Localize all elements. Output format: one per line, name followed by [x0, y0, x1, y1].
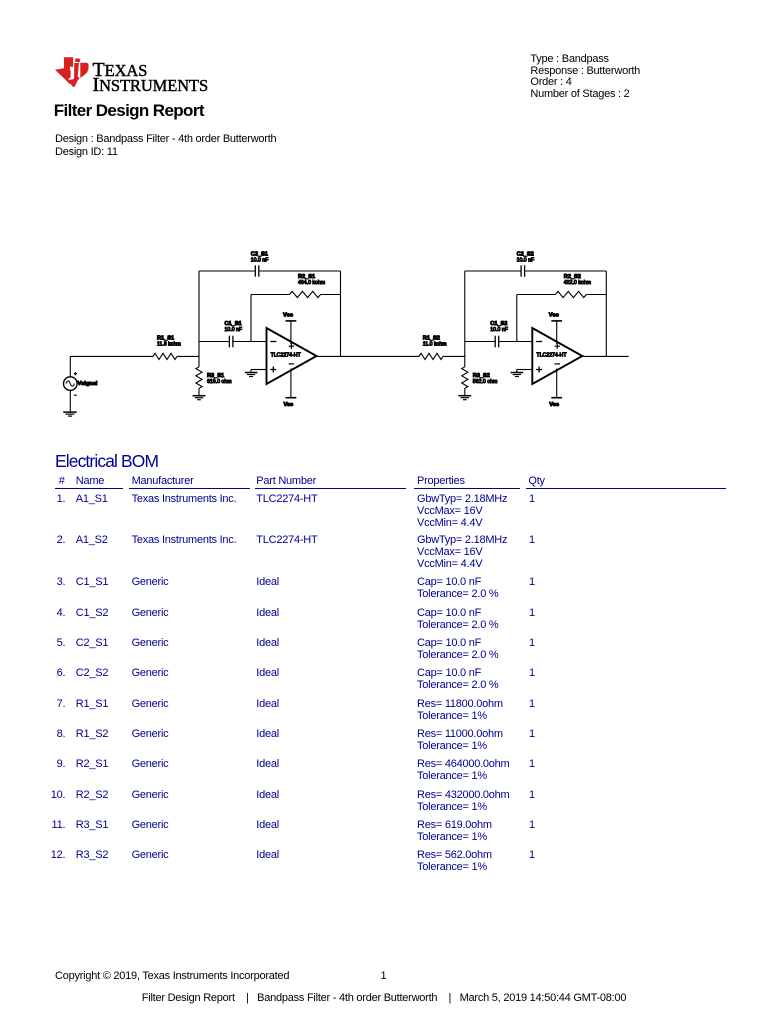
svg-text:10.0 nF: 10.0 nF: [517, 257, 535, 263]
svg-text:R2_S1: R2_S1: [298, 274, 315, 280]
svg-text:562.0 ohm: 562.0 ohm: [473, 379, 498, 385]
svg-text:TLC2274-HT: TLC2274-HT: [536, 352, 567, 358]
svg-text:464.0 kohm: 464.0 kohm: [298, 280, 325, 286]
svg-text:432.0 kohm: 432.0 kohm: [564, 280, 591, 286]
svg-text:R3_S1: R3_S1: [207, 373, 224, 379]
svg-text:R2_S2: R2_S2: [564, 274, 581, 280]
svg-text:11.8 kohm: 11.8 kohm: [157, 342, 181, 348]
svg-text:TLC2274-HT: TLC2274-HT: [271, 352, 302, 358]
svg-text:R3_S2: R3_S2: [473, 373, 490, 379]
svg-text:Vee: Vee: [549, 402, 559, 408]
svg-text:Vsignal: Vsignal: [78, 381, 98, 387]
svg-text:619.0 ohm: 619.0 ohm: [207, 379, 232, 385]
svg-text:10.0 nF: 10.0 nF: [251, 257, 269, 263]
svg-text:10.0 nF: 10.0 nF: [490, 327, 508, 333]
svg-text:Vcc: Vcc: [549, 313, 559, 319]
svg-text:Vcc: Vcc: [283, 313, 293, 319]
svg-text:11.0 kohm: 11.0 kohm: [423, 342, 447, 348]
svg-text:10.0 nF: 10.0 nF: [225, 327, 243, 333]
svg-text:Vee: Vee: [284, 402, 294, 408]
